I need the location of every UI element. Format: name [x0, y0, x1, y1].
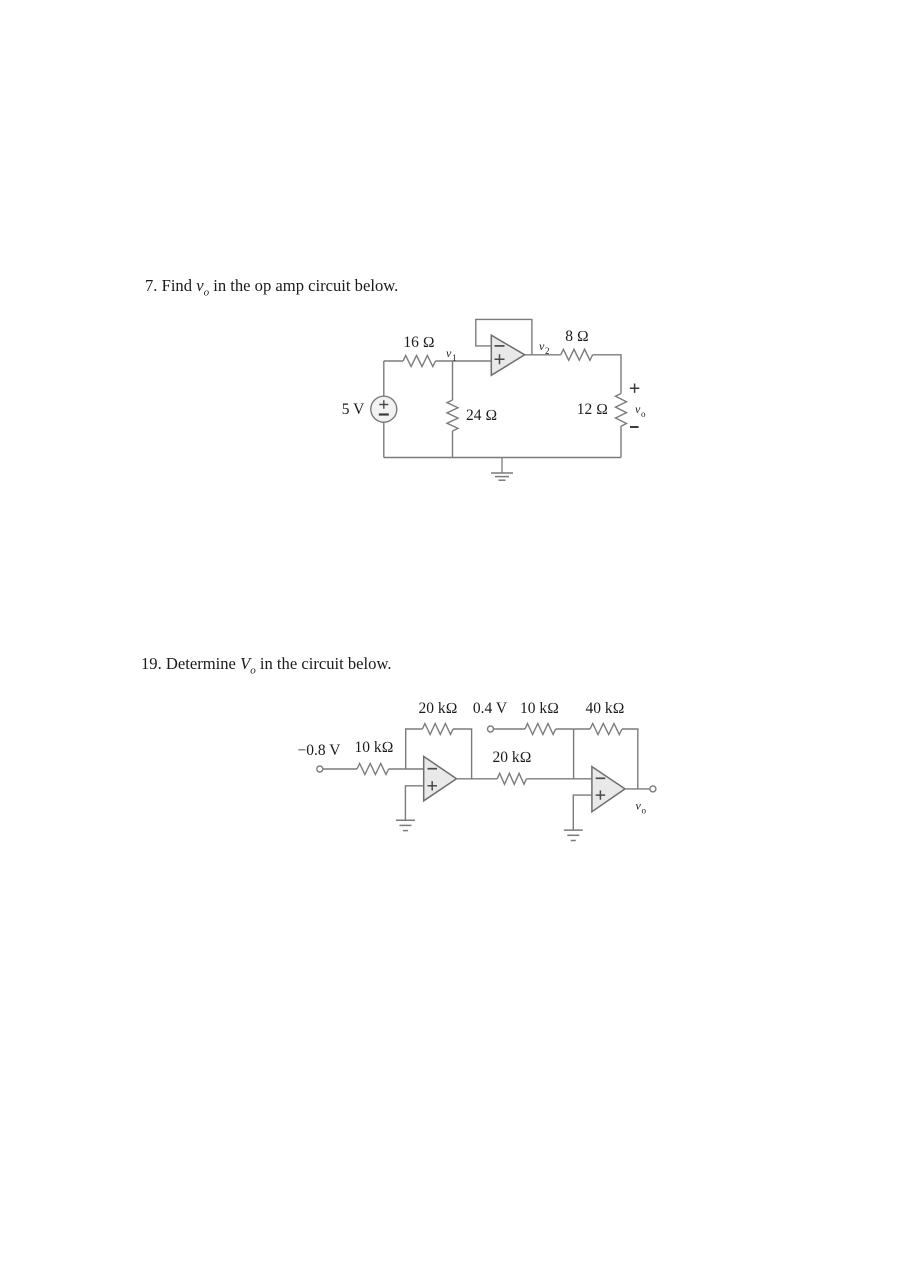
- feedback wire loop (minus input to output): [476, 319, 532, 354]
- resistor R 10k (0.4V branch): [525, 724, 556, 735]
- wire: 0.4V terminal to 10k: [494, 728, 526, 730]
- feedback loop A with 20k: [406, 729, 423, 769]
- op-amp U2 (A): [424, 756, 457, 800]
- wire: op-amp A plus input to ground: [405, 786, 423, 820]
- op-amp U1 plus sign: [495, 354, 505, 364]
- wire: op-amp B plus input to ground: [573, 795, 592, 830]
- output terminal vo: [650, 786, 656, 792]
- svg-text:40 kΩ: 40 kΩ: [585, 700, 624, 717]
- resistor R 10k (input): [357, 764, 389, 775]
- wire: 40k right side down to output: [622, 729, 638, 789]
- wire: op-amp A output to 20k series: [457, 778, 498, 780]
- minus annotation vo: [630, 426, 639, 428]
- wire: op-amp B output to terminal: [625, 788, 650, 790]
- resistor R 40k (feedback B): [590, 724, 622, 735]
- wire: left branch top: [383, 361, 385, 396]
- resistor R 20k (feedback A): [422, 724, 453, 735]
- wire: bottom rail: [384, 457, 621, 459]
- wire: source top to 16-ohm resistor: [384, 360, 403, 362]
- wire: 20k series to op-amp B minus input: [526, 778, 592, 780]
- svg-text:20 kΩ: 20 kΩ: [492, 749, 531, 766]
- svg-text:8 Ω: 8 Ω: [565, 328, 589, 345]
- svg-text:20 kΩ: 20 kΩ: [418, 700, 457, 717]
- wire: 8-ohm to right branch top: [593, 355, 621, 394]
- resistor R 24 ohm: [447, 400, 458, 431]
- ground symbol (op-amp B): [572, 829, 574, 832]
- op-amp A minus sign: [428, 768, 438, 770]
- wire: 10k to junction and down to minus input: [556, 728, 574, 730]
- svg-text:2: 2: [545, 346, 550, 356]
- terminal 0.4 V: [488, 726, 494, 732]
- svg-text:16 Ω: 16 Ω: [403, 334, 434, 351]
- wire: op-amp output to 8-ohm: [525, 354, 561, 356]
- op-amp U3 (B): [592, 767, 625, 812]
- resistor R 16 ohm: [403, 356, 436, 367]
- wire: left branch bottom: [383, 422, 385, 457]
- wire: 10k to op-amp A minus input: [389, 768, 424, 770]
- svg-text:o: o: [641, 409, 646, 419]
- wire: feedback A right side down to output: [453, 729, 472, 779]
- op-amp U1 minus sign: [495, 345, 505, 347]
- ground symbol circuit 7: [501, 458, 503, 474]
- svg-text:5 V: 5 V: [342, 401, 365, 418]
- resistor R 12 ohm: [616, 394, 627, 427]
- wire: junction to 40k: [574, 728, 590, 730]
- wire: junction down to op-amp B input: [573, 729, 575, 779]
- svg-text:12 Ω: 12 Ω: [577, 401, 608, 418]
- wire: 12-ohm to bottom rail: [620, 426, 622, 457]
- svg-text:10 kΩ: 10 kΩ: [520, 700, 559, 717]
- ground symbol (op-amp A): [404, 819, 406, 822]
- heading problem 19: [141, 654, 392, 676]
- op-amp B minus sign: [596, 777, 606, 779]
- wire: terminal to 10k resistor: [323, 768, 357, 770]
- svg-text:10 kΩ: 10 kΩ: [354, 739, 393, 756]
- resistor R 20k (series): [497, 773, 526, 784]
- wire: resistor to node v1 and on to op-amp + input: [436, 360, 492, 362]
- svg-text:−0.8 V: −0.8 V: [298, 742, 342, 759]
- wire: v1 down through 24-ohm to bottom: [452, 361, 454, 400]
- op-amp U1: [491, 335, 524, 375]
- wire: 24-ohm bottom to bottom rail: [452, 431, 454, 458]
- voltage source 5V: [371, 396, 397, 422]
- svg-text:o: o: [642, 806, 647, 816]
- svg-text:0.4 V: 0.4 V: [473, 700, 508, 717]
- svg-text:24 Ω: 24 Ω: [466, 407, 497, 424]
- op-amp B plus sign: [596, 790, 606, 799]
- plus annotation vo: [630, 384, 639, 393]
- op-amp A plus sign: [428, 781, 438, 790]
- resistor R 8 ohm: [561, 349, 593, 360]
- input terminal -0.8 V: [317, 766, 323, 772]
- heading problem 7: [145, 276, 398, 298]
